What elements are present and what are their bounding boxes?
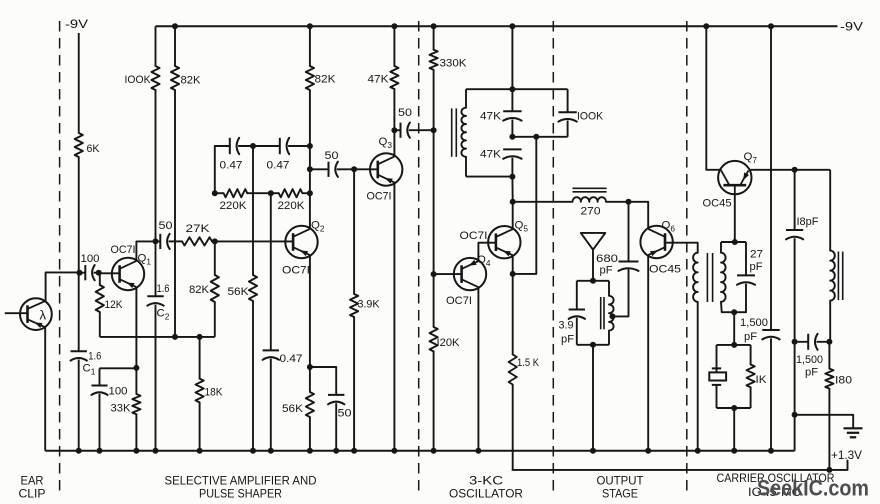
wire C1 to ground bus xyxy=(78,360,80,451)
wire ear clip lead xyxy=(5,312,28,314)
svg-text:pF: pF xyxy=(805,367,818,379)
node network mid tap junction xyxy=(533,134,539,140)
svg-text:56K: 56K xyxy=(282,403,303,415)
wire crystal box top xyxy=(717,344,751,346)
svg-text:82K: 82K xyxy=(189,284,209,296)
resistor 12K xyxy=(96,285,104,312)
wire network bottom to Q5 collector xyxy=(511,177,513,202)
node Q2 emitter junction xyxy=(307,364,313,370)
node bias junction 82K xyxy=(172,334,178,340)
node crystal box bottom junction xyxy=(731,405,737,411)
svg-text:SELECTIVE AMPLIFIER AND: SELECTIVE AMPLIFIER AND xyxy=(165,474,317,488)
wire ground bus (bottom) xyxy=(45,450,794,452)
output stage section divider (dashed) xyxy=(686,21,688,497)
node Q2 base junction xyxy=(212,238,218,244)
wire carrier output drop xyxy=(829,170,831,251)
node crystal box top junction xyxy=(731,342,737,348)
svg-text:27: 27 xyxy=(750,249,763,261)
svg-text:1.6: 1.6 xyxy=(88,351,101,363)
wire Q6 emitter to ground xyxy=(647,256,649,451)
resistor 56K (twin-T shunt) xyxy=(249,275,257,301)
wire 18K to ground bus xyxy=(199,402,201,450)
svg-text:27K: 27K xyxy=(186,223,210,235)
resistor 6K xyxy=(75,133,83,157)
wire carrier tank top line xyxy=(721,241,746,243)
capacitor 100K xyxy=(558,111,576,113)
svg-text:220K: 220K xyxy=(220,200,247,212)
antenna symbol xyxy=(581,233,606,250)
wire twin-T cap line xyxy=(215,146,230,193)
phototransistor Q(light) with lambda xyxy=(20,298,52,330)
wire 220K junction xyxy=(247,192,279,194)
wire choke to coupling node xyxy=(829,301,831,342)
svg-text:STAGE: STAGE xyxy=(602,487,638,501)
svg-text:82K: 82K xyxy=(181,75,201,87)
wire tank right lower xyxy=(608,331,610,345)
node bias junction 18K xyxy=(197,334,203,340)
svg-text:50: 50 xyxy=(159,220,173,232)
node Q5 emitter junction xyxy=(510,271,516,277)
wire Q1 collector node to C2 xyxy=(155,241,157,296)
wire 50 cap to 330K rail xyxy=(409,129,434,131)
svg-text:OC7I: OC7I xyxy=(111,244,136,256)
wire 33K to ground xyxy=(135,414,137,451)
capacitor 50 (Q1-Q2 coupling) xyxy=(159,234,161,249)
svg-text:220K: 220K xyxy=(278,200,305,212)
wire Q6 collector riser xyxy=(647,202,649,229)
inductor output choke xyxy=(830,251,835,301)
wire coupling cap left xyxy=(795,341,809,343)
svg-text:pF: pF xyxy=(561,334,574,346)
svg-text:56K: 56K xyxy=(228,286,249,298)
node crystal ground junction xyxy=(731,448,737,454)
resistor 100K xyxy=(151,66,159,90)
wire Q3 base bias drop xyxy=(353,169,355,294)
wire tank left upper xyxy=(576,281,578,310)
capacitor 50 (Q2 emitter bypass) xyxy=(328,394,344,396)
transistor Q6 OC45 (mirrored) xyxy=(640,226,672,258)
wire Q5 collector riser xyxy=(512,202,514,229)
node twin-T right top junction xyxy=(307,143,313,149)
node Q4 collector ground junction xyxy=(475,448,481,454)
wire 6K to input node xyxy=(78,157,80,273)
wire Q2 emitter drop xyxy=(309,256,311,367)
node 1500pF ground junction xyxy=(768,448,774,454)
wire twin-T resistor line left xyxy=(215,192,224,194)
wire network left bottom xyxy=(465,157,467,177)
svg-text:pF: pF xyxy=(744,331,757,343)
capacitor 50 (Q2-Q3 coupling) xyxy=(328,162,330,177)
wire Q4 base xyxy=(434,273,462,275)
wire input node to C1 xyxy=(78,273,80,352)
node Q5 collector junction xyxy=(510,199,516,205)
svg-text:pF: pF xyxy=(600,265,613,277)
node 180 bus junction xyxy=(826,467,832,473)
wire crystal box bottom xyxy=(717,407,751,409)
resistor 18K xyxy=(196,379,204,403)
svg-text:OC7I: OC7I xyxy=(460,230,488,242)
wire Q3 emitter to ground xyxy=(393,183,395,451)
svg-text:OC7I: OC7I xyxy=(282,265,310,277)
wire 680pF drop xyxy=(628,202,630,262)
wire secondary bottom lead xyxy=(721,302,746,312)
wire secondary top lead xyxy=(720,242,722,253)
node network mid junction xyxy=(509,134,515,140)
svg-text:50: 50 xyxy=(325,150,339,162)
wire tank bottom to ground xyxy=(592,345,594,451)
wire network mid line xyxy=(512,136,567,138)
transistor Q4 OC71 (emitter up) xyxy=(454,258,486,290)
resistor 82K (Q2 base) xyxy=(211,275,219,302)
node ground branch junction xyxy=(792,412,798,418)
transistor Q1 OC71 xyxy=(112,258,144,290)
inductor tank coil xyxy=(609,296,614,331)
capacitor 47K (upper) xyxy=(503,110,521,112)
transistor Q7 OC45 (rotated, base down) xyxy=(718,161,751,194)
wire twin-T cap line right xyxy=(288,145,310,147)
node carrier tank bottom junction xyxy=(731,309,737,315)
core 270 bars xyxy=(573,187,607,189)
wire Q6 base line xyxy=(665,243,698,253)
wire network left drop xyxy=(465,89,467,108)
node C1 ground junction xyxy=(76,448,82,454)
transistor Q2 OC71 xyxy=(285,226,317,258)
node 18pF junction xyxy=(792,167,798,173)
svg-text:47K: 47K xyxy=(368,74,389,86)
wire twin-T res line right xyxy=(302,192,310,194)
wire 1.5K to +1.3V bus xyxy=(512,385,514,470)
svg-text:82K: 82K xyxy=(315,74,336,86)
wire 82K rail top xyxy=(174,26,176,66)
svg-text:33K: 33K xyxy=(111,403,131,415)
svg-text:330K: 330K xyxy=(440,58,467,70)
resistor 47K xyxy=(390,66,398,89)
resistor 330K xyxy=(430,50,438,70)
capacitor 0.47 (twin-T shunt) xyxy=(263,349,279,351)
node Q2 collector coupling junction xyxy=(307,166,313,172)
svg-text:OUTPUT: OUTPUT xyxy=(597,474,645,488)
svg-text:270: 270 xyxy=(581,206,601,218)
wire Q3 collector to 50 cap xyxy=(394,129,400,131)
node 680pF junction xyxy=(626,199,632,205)
wire 100 cap to Q1 base node xyxy=(94,272,99,274)
svg-text:3-KC: 3-KC xyxy=(469,474,503,488)
wire 1500pF rail lower xyxy=(770,338,772,451)
wire network bottom line xyxy=(466,176,512,178)
svg-text:IK: IK xyxy=(756,374,767,386)
capacitor 100 (emitter bypass) xyxy=(92,385,108,387)
wire oscillator output line xyxy=(513,201,573,203)
svg-text:12K: 12K xyxy=(105,299,123,311)
node twin-T res line left junction xyxy=(212,190,218,196)
wire tank box top xyxy=(577,280,609,282)
wire Q1 collector riser xyxy=(136,241,155,260)
wire 27pF branch top xyxy=(745,242,747,275)
wire 0.47 shunt to ground xyxy=(270,359,272,451)
node 0.47 ground junction xyxy=(268,448,274,454)
node twin-T res right junction xyxy=(307,190,313,196)
capacitor 50 (Q3 coupling) xyxy=(400,123,402,138)
svg-text:OC7I: OC7I xyxy=(446,295,472,307)
wire ground branch xyxy=(795,415,854,428)
wire Q7 collector to -9V rail xyxy=(706,26,721,170)
node 330K rail top junction xyxy=(431,23,437,29)
svg-text:50: 50 xyxy=(398,107,412,119)
wire 27pF branch bottom xyxy=(745,284,747,313)
core transformer bars xyxy=(706,253,708,302)
resistor 120K xyxy=(430,327,438,351)
wire 270 to Q6 collector node xyxy=(606,201,648,203)
resistor 82K (Q2 collector) xyxy=(306,66,314,90)
crystal XTAL xyxy=(712,367,721,369)
wire Q1 emitter drop xyxy=(135,288,137,368)
wire 180 to +1.3V bus xyxy=(828,389,830,470)
resistor 220K (twin-T left) xyxy=(224,189,248,197)
resistor 3.9K xyxy=(350,294,358,317)
svg-text:1.5 K: 1.5 K xyxy=(517,357,539,369)
node tank ground junction xyxy=(590,448,596,454)
wire Q4 collector to ground xyxy=(477,288,479,451)
wire network right segments xyxy=(567,89,569,112)
wire coupling node to 180 xyxy=(828,342,830,369)
wire Q3 base xyxy=(354,168,378,170)
node 82K collector rail top junction xyxy=(307,23,313,29)
svg-text:I8pF: I8pF xyxy=(797,216,819,228)
node twin-T cap midpoint xyxy=(250,143,256,149)
wire tank box bottom xyxy=(577,344,609,346)
wire tank bottom to crystal box xyxy=(733,312,735,345)
resistor 180 xyxy=(825,369,833,389)
wire 50 cap to Q3 base node xyxy=(337,168,354,170)
wire 330K rail top xyxy=(433,26,435,49)
wire mid tap to Q5 emitter xyxy=(513,137,537,274)
wire -9V top supply bus xyxy=(156,25,838,27)
wire 82K collector rail xyxy=(309,26,311,66)
node 3.9K ground junction xyxy=(351,448,357,454)
wire network center segments xyxy=(511,89,513,111)
svg-text:680: 680 xyxy=(596,253,618,265)
resistor 82K (Q1 bias) xyxy=(171,66,179,90)
svg-text:PULSE SHAPER: PULSE SHAPER xyxy=(199,487,282,501)
node input junction xyxy=(77,270,83,276)
wire 120K to ground xyxy=(433,351,435,450)
wire 56K shunt to ground xyxy=(252,301,254,451)
svg-text:1,500: 1,500 xyxy=(740,317,768,329)
wire 100 cap drop xyxy=(99,368,101,385)
svg-text:47K: 47K xyxy=(480,111,501,123)
wire crystal box to ground xyxy=(733,408,735,451)
resistor 33K xyxy=(132,394,140,414)
node 100K rail top xyxy=(155,26,157,66)
transistor Q3 OC71 xyxy=(370,153,402,185)
node coupling right junction xyxy=(826,339,832,345)
capacitor 3.9pF xyxy=(569,309,585,311)
node transformer primary ground junction xyxy=(695,448,701,454)
inductor 270 xyxy=(573,197,607,202)
resistor 27K (series) xyxy=(182,237,212,245)
svg-text:100: 100 xyxy=(109,386,128,398)
svg-text:OC45: OC45 xyxy=(703,198,732,210)
capacitor 47K (lower) xyxy=(503,148,521,150)
capacitor C2 1.6 xyxy=(147,295,163,297)
wire network top line xyxy=(466,88,568,90)
capacitor 0.47 (twin-T right) xyxy=(279,138,281,154)
wire phototransistor emitter to ground bus xyxy=(44,327,46,451)
wire collector node to 50 cap xyxy=(156,240,161,242)
wire 680pF to tank tap xyxy=(613,270,629,317)
node C2 ground junction xyxy=(153,448,159,454)
node Q1 emitter junction xyxy=(133,365,139,371)
svg-text:0.47: 0.47 xyxy=(220,160,243,172)
node Q3 emitter ground junction xyxy=(391,448,397,454)
node Q6 emitter ground junction xyxy=(645,448,651,454)
wire twin-T caps middle xyxy=(238,145,280,147)
wire 82K to Q2 collector xyxy=(309,90,311,228)
node coupling cap junction xyxy=(792,339,798,345)
node Q7 base junction xyxy=(732,239,738,245)
svg-text:I20K: I20K xyxy=(437,337,460,349)
wire +1.3V bus (bottom) xyxy=(513,461,848,470)
node network top junction xyxy=(509,86,515,92)
capacitor C1 1.6 xyxy=(71,350,87,352)
wire Q1 emitter branch xyxy=(100,367,137,369)
wire 3.9K to ground xyxy=(353,317,355,451)
node 100 cap ground junction xyxy=(97,448,103,454)
wire transformer primary to ground xyxy=(697,302,699,451)
svg-text:EAR: EAR xyxy=(21,474,44,488)
wire Q5 emitter to 1.5K xyxy=(512,274,514,355)
wire 100 cap to ground xyxy=(99,394,101,451)
svg-text:0.47: 0.47 xyxy=(280,353,303,365)
node Q1 base junction xyxy=(96,270,102,276)
wire tank right upper xyxy=(608,281,610,296)
node 120K ground junction xyxy=(431,448,437,454)
svg-text:1.6: 1.6 xyxy=(157,283,170,295)
wire 330K to Q4 base node xyxy=(433,70,435,274)
wire -9V left drop xyxy=(78,33,80,133)
capacitor 27pF xyxy=(737,274,755,276)
wire Q4 base rail to 120K xyxy=(433,274,435,327)
core output choke bars xyxy=(837,252,839,301)
capacitor 100 (input coupling) xyxy=(84,265,86,280)
wire Q2 collector to 50 cap xyxy=(310,168,329,170)
svg-text:0.47: 0.47 xyxy=(267,160,290,172)
ear clip section divider (dashed) xyxy=(59,21,61,497)
svg-text:-9V: -9V xyxy=(65,17,89,31)
wire 18pF rail upper xyxy=(794,170,796,230)
wire 47K to Q3 collector xyxy=(393,89,395,156)
wire Q7 base drop xyxy=(734,194,736,242)
node tank top junction xyxy=(590,278,596,284)
svg-text:6K: 6K xyxy=(87,143,100,155)
wire 18pF rail lower xyxy=(794,238,796,450)
svg-text:3.9K: 3.9K xyxy=(358,299,380,311)
node twin-T res midpoint xyxy=(268,190,274,196)
svg-text:pF: pF xyxy=(750,261,763,273)
node 33K ground junction xyxy=(133,448,139,454)
inductor transformer secondary (right) xyxy=(721,253,726,302)
wire coupling cap right xyxy=(817,341,830,343)
svg-text:I80: I80 xyxy=(835,375,852,387)
wire Q7 emitter line xyxy=(749,169,831,171)
wire bias node line xyxy=(100,336,215,338)
wire Q2 emitter to 56K xyxy=(309,367,311,392)
node 1500pF rail top junction xyxy=(768,23,774,29)
svg-text:47K: 47K xyxy=(480,149,501,161)
3-kc oscillator section divider (dashed) xyxy=(552,21,554,497)
node feedback network top junction (top bus) xyxy=(509,23,515,29)
wire emitter bypass branch xyxy=(310,367,336,395)
resistor 1K xyxy=(747,365,755,388)
svg-text:3.9: 3.9 xyxy=(559,320,574,332)
node tank bottom junction xyxy=(590,342,596,348)
wire 50 cap to 27K xyxy=(169,240,182,242)
wire 100K to Q1 collector node xyxy=(155,90,157,241)
capacitor 1500pF (coupling) xyxy=(807,334,809,350)
capacitor 1500pF (shunt) xyxy=(762,329,779,331)
node 82K rail top junction xyxy=(172,23,178,29)
wire bias node to 18K xyxy=(199,337,201,379)
wire Q1 base to 12K xyxy=(99,273,101,285)
inductor feedback coil xyxy=(461,108,466,157)
wire Q4 emitter to Q5 base xyxy=(478,243,496,261)
wire 12K to bias node xyxy=(99,312,101,337)
node bypass ground junction xyxy=(333,448,339,454)
svg-text:λ: λ xyxy=(40,308,47,323)
svg-text:50: 50 xyxy=(338,408,352,420)
resistor 56K (Q2 emitter) xyxy=(306,392,314,417)
wire 82K Q2-base to bias node xyxy=(214,302,216,337)
wire Q1 base xyxy=(99,272,120,274)
selective amplifier section divider (dashed) xyxy=(418,21,420,497)
resistor 1.5K xyxy=(509,355,517,385)
core tank coil bars xyxy=(600,297,602,329)
svg-text:CLIP: CLIP xyxy=(19,487,46,501)
node Q2 emitter ground junction xyxy=(307,448,313,454)
node 47K rail top junction xyxy=(391,23,397,29)
wire crystal branch upper xyxy=(716,345,718,369)
wire antenna lead xyxy=(592,250,594,281)
svg-text:1,500: 1,500 xyxy=(796,354,823,366)
node network bottom junction xyxy=(509,174,515,180)
svg-text:OSCILLATOR: OSCILLATOR xyxy=(449,487,523,501)
wire 1500pF rail upper xyxy=(770,26,772,330)
node Q3 base junction xyxy=(351,166,357,172)
svg-text:IOOK: IOOK xyxy=(125,74,151,86)
resistor 220K (twin-T right) xyxy=(279,189,303,197)
node Q7 collector rail junction xyxy=(703,23,709,29)
svg-text:OC7I: OC7I xyxy=(367,191,392,203)
wire Q5 emitter drop xyxy=(512,256,514,274)
capacitor 680pF xyxy=(619,261,639,263)
svg-text:SeekIC.com: SeekIC.com xyxy=(757,476,869,501)
wire 33K drop xyxy=(135,368,137,394)
wire 27K to Q2 base node xyxy=(212,240,215,242)
wire 82K to bias node xyxy=(174,90,176,337)
inductor transformer primary (left) xyxy=(693,253,698,302)
node tank tap xyxy=(610,313,616,319)
wire 56K emitter to ground xyxy=(309,417,311,451)
svg-text:IOOK: IOOK xyxy=(577,111,603,123)
node Q3-Q4 coupling junction xyxy=(431,127,437,133)
node Q3 collector junction xyxy=(391,127,397,133)
wire tank left lower xyxy=(576,318,578,345)
svg-text:-9V: -9V xyxy=(840,20,864,34)
wire bypass cap to ground xyxy=(335,403,337,451)
wire Q2 base rail to 82K xyxy=(214,241,216,275)
wire 1K branch lower xyxy=(750,387,752,408)
node Q4 base junction xyxy=(431,271,437,277)
